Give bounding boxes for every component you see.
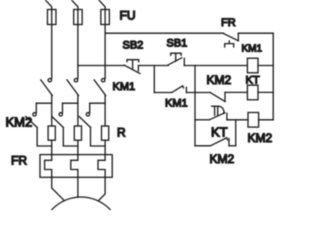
coil KM2 bbox=[248, 113, 259, 128]
wire: row C start bbox=[195, 119, 209, 121]
wire: bypass branch top (L3) bbox=[90, 102, 105, 104]
wire: KM2 coil to right rail bbox=[259, 119, 274, 121]
wire: row B to KT coil bbox=[225, 91, 247, 93]
thermal relay FR NC contact bbox=[223, 33, 238, 47]
svg-text:SB2: SB2 bbox=[123, 40, 144, 52]
svg-text:KM1: KM1 bbox=[113, 81, 136, 93]
wire: row D start bbox=[195, 145, 210, 147]
pushbutton SB1 (start, NO) bbox=[168, 53, 184, 65]
contactor KM2 bypass contact (L2) bbox=[52, 103, 78, 146]
wire: KM1 coil to right rail bbox=[258, 65, 273, 67]
svg-text:SB1: SB1 bbox=[167, 38, 188, 50]
wire: row A SB2 to SB1 bbox=[138, 65, 168, 67]
pushbutton SB2 (stop, NC) bbox=[124, 60, 140, 74]
wire: row B to KM2 NC bbox=[186, 92, 210, 94]
wire: row C to KM2 coil bbox=[227, 119, 248, 121]
wire: motor lead W bbox=[98, 177, 105, 201]
contactor KM1 main contact (L1) bbox=[41, 79, 53, 96]
FR heater element (L2) bbox=[71, 155, 78, 178]
wire: control top rail from L3 bbox=[105, 32, 223, 34]
wire: top rail after FR bbox=[238, 32, 273, 34]
contactor KM2 auxiliary NO contact (self-hold) bbox=[210, 138, 229, 146]
contactor KM1 auxiliary NO contact (self-hold) bbox=[172, 86, 187, 93]
svg-text:R: R bbox=[117, 126, 126, 140]
contactor KM2 bypass contact (L3) bbox=[79, 103, 105, 146]
wire: L2 contact to resistor bbox=[77, 96, 79, 127]
svg-text:FR: FR bbox=[221, 17, 236, 29]
FR heater element (L1) bbox=[45, 155, 52, 178]
wire: L1 resistor to FR box bbox=[51, 140, 53, 154]
wire: row A SB1 to KM1 coil bbox=[184, 65, 247, 67]
wire: junction drop to self-hold row bbox=[153, 66, 155, 93]
contactor KM1 main contact (L3) bbox=[94, 79, 106, 96]
coil KT bbox=[247, 85, 258, 100]
wire: bypass branch top (L2) bbox=[63, 102, 78, 104]
wire: L3 resistor to FR box bbox=[104, 140, 106, 154]
wire: row D to self-hold vertical bbox=[229, 145, 236, 147]
wire: L2 resistor to FR box bbox=[77, 140, 79, 154]
wire: KM2 self-hold branch vertical bbox=[235, 120, 237, 146]
time relay KT delayed-closing NO contact bbox=[209, 106, 227, 120]
resistor R (L3) bbox=[102, 126, 109, 140]
wire: phase L3 incoming with fuse lead bbox=[99, 0, 105, 78]
svg-text:KM2: KM2 bbox=[6, 115, 33, 130]
wire: right return rail bbox=[272, 33, 274, 120]
svg-text:KM1: KM1 bbox=[242, 44, 263, 55]
svg-text:FU: FU bbox=[120, 9, 136, 23]
svg-text:KT: KT bbox=[246, 75, 260, 87]
svg-text:KM1: KM1 bbox=[165, 98, 188, 110]
wire: row A from L2 to SB2 bbox=[78, 65, 124, 67]
wire: L3 contact to resistor bbox=[104, 96, 106, 127]
wire: main vertical bus at node after SB1 bbox=[194, 66, 196, 146]
coil KM1 bbox=[247, 58, 258, 73]
wire: phase L1 incoming with fuse lead bbox=[45, 0, 51, 78]
svg-text:KT: KT bbox=[211, 125, 228, 140]
svg-text:KM2: KM2 bbox=[248, 131, 273, 145]
fuse FU (L1) bbox=[47, 10, 56, 25]
contactor KM2 bypass contact (L1) bbox=[26, 103, 52, 146]
FR heater element (L3) bbox=[98, 155, 105, 178]
svg-text:KM2: KM2 bbox=[207, 73, 232, 87]
fuse FU (L3) bbox=[101, 10, 110, 25]
wire: KT coil to right rail bbox=[258, 91, 273, 93]
wire: row B start bbox=[154, 92, 171, 94]
wire: motor lead U bbox=[52, 177, 65, 200]
svg-text:KM2: KM2 bbox=[210, 152, 235, 166]
contactor KM2 auxiliary NC contact bbox=[210, 92, 225, 101]
wire: phase L2 incoming with fuse lead bbox=[72, 0, 78, 78]
contactor KM1 main contact (L2) bbox=[67, 79, 79, 96]
thermal overload relay FR box bbox=[40, 155, 112, 178]
resistor R (L2) bbox=[74, 126, 81, 140]
svg-text:FR: FR bbox=[11, 154, 27, 168]
fuse FU (L2) bbox=[74, 10, 83, 25]
motor M bbox=[41, 197, 121, 240]
wire: motor lead V bbox=[77, 177, 79, 197]
wire: L1 contact to resistor bbox=[51, 96, 53, 127]
resistor R (L1) bbox=[48, 126, 55, 140]
wire: bypass branch top (L1) bbox=[36, 102, 51, 104]
